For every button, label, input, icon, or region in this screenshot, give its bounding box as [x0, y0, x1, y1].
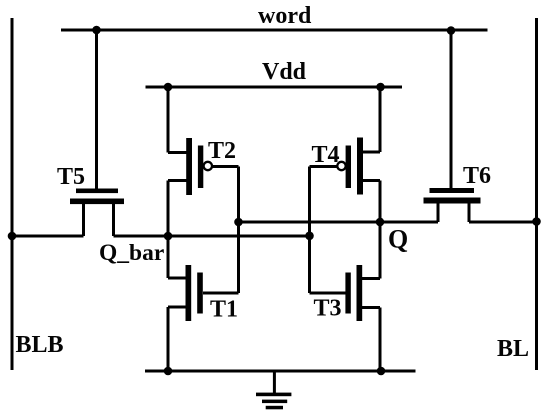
wire T1 drain to node Q_bar [167, 236, 170, 278]
wire T3 drain stub [361, 277, 380, 280]
svg-text:Q: Q [388, 225, 408, 254]
wire T2 source to Vdd [167, 87, 170, 153]
junction Q/T2 gate [234, 218, 243, 227]
pmos bubble T2 [204, 162, 212, 170]
transistor T6 channel bar [424, 198, 481, 204]
wire T3 source stub [361, 306, 380, 309]
wire T6 drain stub [468, 203, 471, 222]
junction Vdd/T4 [376, 83, 385, 92]
svg-text:T2: T2 [208, 138, 236, 164]
wire T2 source stub [168, 151, 188, 154]
wire T4 source stub [362, 151, 380, 154]
wire T2 drain to node Q_bar [167, 181, 170, 237]
wire T4 drain to node Q [379, 181, 382, 223]
junction ground rail/T3 [377, 367, 386, 376]
wire T3 drain to node Q [379, 222, 382, 279]
wire T5 source stub [82, 203, 85, 236]
junction Q/BL [532, 217, 541, 226]
svg-text:T6: T6 [463, 163, 491, 189]
transistor T1 channel bar [186, 265, 192, 321]
svg-text:Q_bar: Q_bar [99, 240, 164, 266]
svg-text:BL: BL [497, 336, 529, 362]
wire node Q_bar from T5 to T4 gate [114, 235, 310, 238]
transistor T4 channel bar [357, 138, 363, 195]
wire T4 source to Vdd [379, 87, 382, 152]
wire T3 gate lead [310, 292, 346, 295]
wire T6 gate from word line [450, 30, 453, 188]
svg-text:T5: T5 [57, 164, 85, 190]
wire T2 drain stub [168, 179, 188, 182]
wire cross-couple left vertical (T2/T1 gates) [237, 167, 240, 294]
wire node Q from T6 to BL [469, 221, 537, 224]
ground bar 2 [262, 400, 287, 404]
wire node Q from T2 gate to T6 [239, 221, 439, 224]
junction Q_bar/T3 gate [305, 232, 314, 241]
transistor T6 gate bar [430, 188, 475, 193]
wire cross-couple right vertical (T4/T3 gates) [308, 167, 311, 294]
ground bar 1 [256, 393, 291, 397]
wire Vdd rail [146, 86, 403, 89]
wire node Q_bar from BLB to T5 [12, 235, 84, 238]
junction ground rail/T1 [164, 367, 173, 376]
wire BLB bit line (left vertical) [11, 18, 14, 370]
wire T1 drain stub [168, 277, 187, 280]
wire T3 source to ground rail [379, 308, 382, 372]
wire T5 drain stub [112, 203, 115, 236]
transistor T2 gate bar [198, 146, 203, 189]
svg-text:BLB: BLB [16, 332, 64, 358]
wire T4 gate lead [310, 165, 338, 168]
junction Q_bar/T1 drain [164, 232, 173, 241]
svg-text:Vdd: Vdd [262, 59, 307, 85]
wire ground rail [145, 370, 416, 373]
wire T4 drain stub [362, 179, 380, 182]
svg-text:T3: T3 [314, 296, 342, 322]
junction word/T6 gate [447, 26, 456, 35]
transistor T1 gate bar [197, 273, 203, 314]
svg-text:T4: T4 [312, 142, 340, 168]
wire T6 source stub [437, 203, 440, 222]
junction Vdd/T2 [164, 83, 173, 92]
transistor T3 gate bar [345, 273, 350, 314]
wire T1 source to ground rail [167, 307, 170, 371]
wire word line (top horizontal) [61, 29, 488, 32]
wire T1 gate lead [203, 292, 239, 295]
transistor T5 gate bar [76, 189, 118, 194]
transistor T3 channel bar [357, 265, 363, 321]
wire ground stub [273, 371, 276, 393]
wire T2 gate lead [213, 165, 239, 168]
junction BLB/Q_bar [8, 232, 17, 241]
svg-text:T1: T1 [210, 297, 238, 323]
svg-text:word: word [258, 3, 312, 29]
wire T5 gate from word line [95, 30, 98, 189]
transistor T2 channel bar [186, 138, 192, 195]
transistor T5 channel bar [70, 199, 124, 205]
junction word/T5 gate [92, 26, 101, 35]
wire BL bit line (right vertical) [535, 18, 538, 370]
pmos bubble T4 [337, 162, 345, 170]
wire T1 source stub [168, 306, 187, 309]
ground bar 3 [266, 406, 283, 410]
junction Q/T3 drain [376, 218, 385, 227]
transistor T4 gate bar [346, 146, 351, 189]
